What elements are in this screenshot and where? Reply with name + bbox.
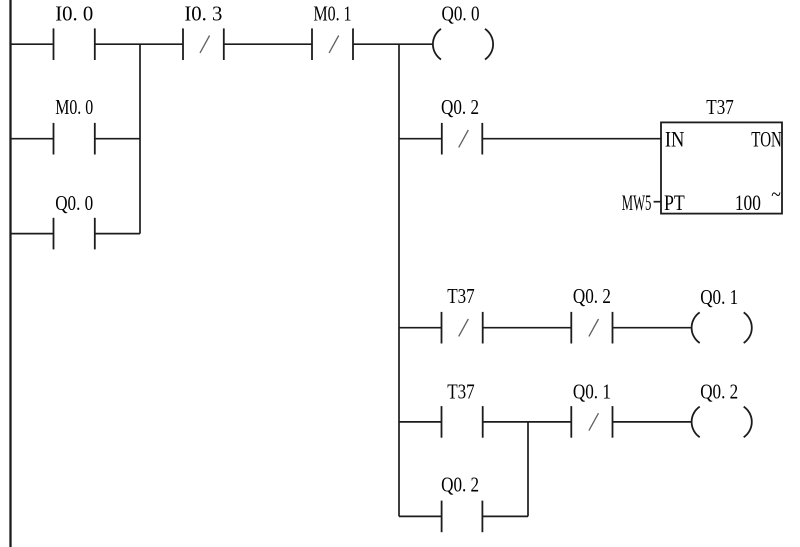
- wire Q0.0 parallel rung from rail: [11, 233, 54, 235]
- svg-text:Q0. 2: Q0. 2: [441, 95, 479, 119]
- wire rung1 rail to I0.0: [11, 43, 54, 45]
- wire Q0.1 to coil Q0.2: [613, 421, 693, 423]
- coil Q0.1: [692, 312, 752, 343]
- wire I0.3 to M0.1: [224, 43, 312, 45]
- contact Q0.2 NC: [442, 123, 483, 155]
- wire I0.0 to I0.3: [95, 43, 183, 45]
- coil Q0.0: [433, 29, 493, 60]
- wire Q0.2 to coil Q0.1: [613, 327, 693, 329]
- svg-text:M0. 0: M0. 0: [55, 95, 93, 119]
- wire T37 to Q0.2 rung3: [483, 327, 572, 329]
- svg-text:T37: T37: [447, 284, 475, 308]
- svg-text:T37: T37: [706, 95, 734, 119]
- svg-text:M0. 1: M0. 1: [314, 1, 352, 25]
- left power rail: [9, 0, 11, 547]
- wire branch B to Q0.2: [399, 138, 442, 140]
- contact T37 rung4: [442, 406, 483, 438]
- wire T37 to Q0.1 rung4: [483, 421, 572, 423]
- svg-text:Q0. 1: Q0. 1: [573, 380, 611, 404]
- contact T37 NC rung3: [442, 312, 483, 344]
- svg-text:IN: IN: [665, 127, 685, 152]
- contact I0.3 NC: [183, 28, 224, 60]
- contact I0.0: [54, 28, 95, 60]
- contact Q0.1 NC rung4: [571, 406, 612, 438]
- svg-text:Q0. 2: Q0. 2: [700, 380, 738, 404]
- wire MW5 to PT: [654, 201, 661, 203]
- svg-text:Q0. 0: Q0. 0: [55, 191, 93, 215]
- wire M0.0 to branch A: [95, 138, 140, 140]
- contact M0.1 NC: [312, 28, 353, 60]
- svg-text:I0. 3: I0. 3: [184, 1, 222, 25]
- wire M0.1 to coil Q0.0: [353, 43, 433, 45]
- svg-text:PT: PT: [664, 190, 685, 215]
- svg-text:~: ~: [771, 182, 781, 207]
- wire Q0.0 to branch A: [95, 233, 140, 235]
- svg-text:Q0. 2: Q0. 2: [573, 284, 611, 308]
- branch C vertical: [527, 422, 529, 517]
- timer T37 box: [661, 122, 782, 213]
- wire branch B to Q0.2 rung5: [399, 515, 442, 517]
- coil Q0.2: [692, 407, 752, 438]
- wire Q0.2 to timer box: [482, 138, 660, 140]
- wire branch B to T37 rung3: [399, 327, 442, 329]
- svg-text:TON: TON: [751, 127, 782, 152]
- branch A vertical: [139, 44, 141, 233]
- branch B vertical: [398, 44, 400, 516]
- contact Q0.0: [54, 218, 95, 250]
- svg-text:I0. 0: I0. 0: [55, 1, 93, 25]
- svg-text:Q0. 0: Q0. 0: [442, 1, 480, 25]
- svg-text:T37: T37: [447, 380, 475, 404]
- svg-text:MW5: MW5: [622, 190, 652, 215]
- wire Q0.2 to branch C rung5: [482, 515, 528, 517]
- svg-text:Q0. 1: Q0. 1: [700, 285, 738, 309]
- contact Q0.2 NC rung3: [571, 312, 612, 344]
- wire M0.0 rung from rail: [11, 138, 54, 140]
- contact M0.0: [54, 123, 95, 155]
- svg-text:100: 100: [735, 190, 761, 215]
- wire branch B to T37 rung4: [399, 421, 442, 423]
- svg-text:Q0. 2: Q0. 2: [441, 473, 479, 497]
- contact Q0.2 rung5: [442, 501, 483, 533]
